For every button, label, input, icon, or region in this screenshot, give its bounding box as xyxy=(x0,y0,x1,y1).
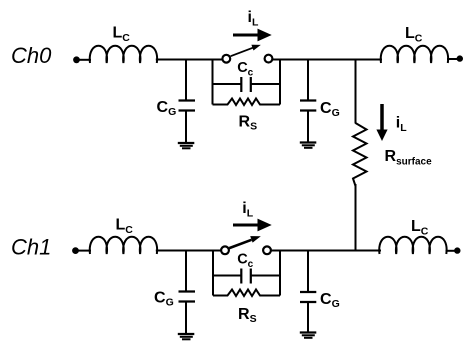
current arrow i_L bottom xyxy=(233,219,272,232)
switch S2 arm with arrow xyxy=(229,236,260,248)
switch S1 right contact xyxy=(265,55,273,63)
ground for C_G2 xyxy=(300,143,317,148)
wire switch loop right arm (bottom) xyxy=(279,251,281,296)
wire L3 to switch xyxy=(156,250,222,252)
capacitor C_G3 (bottom left) xyxy=(179,251,196,335)
terminal dot Ch0 output xyxy=(457,55,463,61)
wire switch to L4 xyxy=(271,250,382,252)
current arrow i_L surface (down) xyxy=(376,104,387,141)
ground for C_G1 xyxy=(178,143,195,148)
wire switch loop left arm xyxy=(212,60,214,105)
switch S1 left contact xyxy=(222,55,230,63)
switch S2 right contact xyxy=(263,246,271,254)
inductor L3 (bottom left L_C) xyxy=(90,237,157,254)
wire L4 output lead xyxy=(446,250,456,252)
wire Ch1 input lead xyxy=(76,250,92,252)
switch S1 arm with arrow xyxy=(231,45,261,57)
capacitor C_G1 (top left) xyxy=(179,60,196,144)
wire R_surface bottom lead xyxy=(355,184,357,251)
terminal dot Ch1 output xyxy=(454,247,460,253)
inductor L2 (top right L_C) xyxy=(381,46,448,63)
capacitor C_G4 (bottom right) xyxy=(300,251,316,333)
wire Ch0 input lead xyxy=(77,59,92,61)
svg-text:Ch0: Ch0 xyxy=(11,43,52,68)
resistor R_S2 xyxy=(213,290,280,297)
wire switch loop left arm (bottom) xyxy=(212,251,214,296)
capacitor C_c2 (parallel cap bottom) xyxy=(213,269,281,284)
terminal dot Ch1 input xyxy=(72,247,79,254)
inductor L1 (top left L_C) xyxy=(90,46,157,63)
wire switch loop right arm xyxy=(279,60,281,105)
ground for C_G4 xyxy=(300,333,317,338)
wire R_surface top lead xyxy=(355,60,357,124)
switch S2 left contact xyxy=(221,246,229,254)
inductor L4 (bottom right L_C) xyxy=(379,237,446,254)
capacitor C_G2 (top right) xyxy=(300,60,316,143)
resistor R_S1 xyxy=(213,99,281,106)
resistor R_surface xyxy=(353,123,367,186)
terminal dot Ch0 input xyxy=(73,56,80,63)
wire L1 to switch xyxy=(156,59,223,61)
wire L2 output lead xyxy=(447,58,458,60)
svg-text:Ch1: Ch1 xyxy=(11,235,51,260)
capacitor C_c1 (parallel cap) xyxy=(213,77,281,92)
ground for C_G3 xyxy=(178,334,195,339)
wire switch to L2 xyxy=(272,59,382,61)
current arrow i_L top xyxy=(233,29,272,42)
